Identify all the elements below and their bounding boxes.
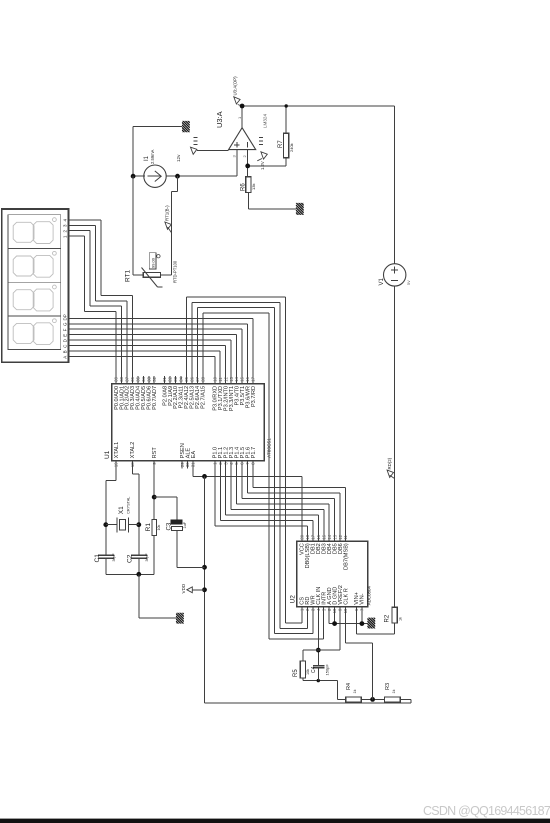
svg-text:10k: 10k: [157, 525, 161, 531]
svg-text:X1: X1: [118, 506, 125, 514]
svg-text:R7: R7: [278, 140, 284, 148]
svg-text:18: 18: [305, 534, 310, 539]
svg-text:RTD-PT100: RTD-PT100: [172, 260, 177, 283]
svg-text:13k: 13k: [251, 184, 256, 190]
svg-text:RST: RST: [152, 447, 158, 459]
svg-text:1k: 1k: [392, 689, 396, 693]
svg-text:10: 10: [212, 376, 217, 381]
svg-text:99.00: 99.00: [151, 257, 156, 268]
svg-text:V1: V1: [379, 277, 385, 285]
svg-text:12: 12: [223, 376, 228, 381]
svg-text:15: 15: [240, 376, 245, 381]
svg-text:R3: R3: [385, 683, 391, 690]
svg-text:C2: C2: [126, 554, 133, 563]
svg-text:20: 20: [300, 534, 305, 539]
svg-text:13: 13: [332, 534, 337, 539]
svg-text:16: 16: [316, 534, 321, 539]
svg-text:14: 14: [327, 534, 332, 539]
svg-text:B: B: [63, 350, 68, 353]
svg-text:VIN-: VIN-: [360, 593, 366, 604]
svg-text:5V: 5V: [407, 280, 411, 285]
svg-text:1k: 1k: [398, 617, 402, 621]
svg-text:U3:A: U3:A: [215, 111, 224, 128]
svg-text:36: 36: [130, 376, 135, 381]
svg-text:P3.7/RD: P3.7/RD: [251, 386, 257, 407]
svg-text:12: 12: [338, 534, 343, 539]
svg-text:G: G: [63, 322, 68, 326]
svg-text:30pF: 30pF: [145, 553, 149, 562]
svg-text:C4: C4: [311, 666, 317, 673]
svg-text:10k: 10k: [306, 669, 310, 675]
svg-text:XTAL1: XTAL1: [114, 442, 120, 459]
svg-text:CLK R: CLK R: [343, 588, 349, 604]
svg-text:U3:A(OP): U3:A(OP): [233, 76, 238, 96]
svg-text:C1: C1: [94, 554, 101, 563]
svg-text:2.59mA: 2.59mA: [150, 149, 155, 164]
svg-text:CRYSTAL: CRYSTAL: [126, 497, 130, 514]
svg-text:RT1: RT1: [124, 269, 131, 282]
svg-text:38: 38: [119, 376, 124, 381]
svg-text:16: 16: [245, 376, 250, 381]
svg-text:P2.7/A15: P2.7/A15: [201, 386, 207, 409]
svg-text:U1: U1: [104, 450, 111, 459]
svg-text:17: 17: [251, 376, 256, 381]
svg-text:E: E: [63, 334, 68, 337]
svg-text:DB7(MSB): DB7(MSB): [343, 543, 349, 570]
svg-text:CSDN @QQ1694456187: CSDN @QQ1694456187: [423, 804, 550, 818]
svg-text:15: 15: [321, 534, 326, 539]
svg-text:XTAL2: XTAL2: [130, 442, 136, 459]
svg-text:240k: 240k: [289, 143, 294, 152]
svg-text:EA: EA: [191, 451, 197, 459]
svg-text:LM324: LM324: [263, 114, 268, 128]
svg-text:12v: 12v: [176, 154, 181, 162]
svg-text:R2: R2: [385, 614, 391, 622]
svg-text:P0.7/AD7: P0.7/AD7: [152, 386, 158, 410]
svg-text:1uF: 1uF: [183, 521, 187, 528]
svg-text:30pF: 30pF: [112, 553, 116, 562]
svg-text:150pF: 150pF: [324, 664, 329, 676]
svg-text:F: F: [63, 328, 68, 331]
svg-text:11: 11: [343, 535, 348, 540]
svg-text:11: 11: [218, 377, 223, 382]
svg-text:R1: R1: [145, 523, 152, 532]
svg-text:1k: 1k: [353, 689, 357, 693]
svg-text:VDD: VDD: [181, 583, 186, 593]
svg-text:U2: U2: [289, 595, 296, 604]
svg-text:14: 14: [234, 376, 239, 381]
svg-text:DP: DP: [63, 314, 68, 320]
svg-text:39: 39: [114, 376, 119, 381]
svg-text:RT1(B-): RT1(B-): [165, 205, 170, 221]
svg-text:13: 13: [229, 376, 234, 381]
svg-text:37: 37: [125, 376, 130, 381]
svg-text:R4: R4: [346, 683, 352, 690]
svg-text:P1.7: P1.7: [251, 447, 257, 459]
svg-text:RD(2): RD(2): [387, 457, 392, 469]
svg-text:A: A: [63, 356, 68, 359]
svg-text:1.2V: 1.2V: [260, 161, 265, 170]
svg-text:R5: R5: [293, 669, 299, 677]
svg-text:ADC0804: ADC0804: [367, 586, 372, 606]
svg-text:17: 17: [311, 534, 316, 539]
svg-text:R6: R6: [240, 183, 246, 191]
svg-text:C3: C3: [166, 522, 172, 530]
